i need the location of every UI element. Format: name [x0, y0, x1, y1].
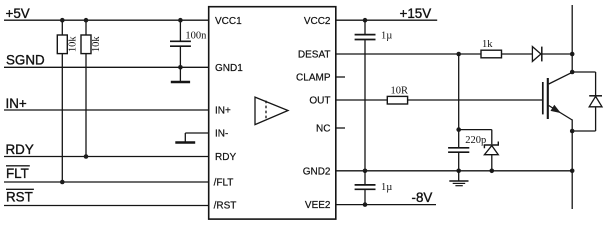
wire C1 bottom to SGND: [179, 47, 181, 68]
svg-text:IN+: IN+: [6, 96, 27, 111]
resistor R1 10k: [57, 35, 78, 54]
wire zener branch: [459, 130, 492, 145]
wire CLAMP stub: [336, 76, 345, 78]
wire OUT rail: [336, 99, 388, 101]
svg-text:/FLT: /FLT: [214, 178, 234, 189]
wire DESAT rail: [336, 53, 481, 55]
svg-text:GND2: GND2: [303, 166, 331, 177]
wire emitter rail: [571, 131, 573, 209]
svg-text:OUT: OUT: [309, 96, 330, 107]
wire VEE2 rail: [336, 204, 436, 206]
ground tie SGND: [171, 67, 190, 82]
svg-text:RDY: RDY: [215, 152, 236, 163]
junction R1 +5V: [60, 18, 65, 23]
svg-text:1µ: 1µ: [381, 182, 392, 193]
capacitor C1 100n: [170, 30, 207, 46]
ground tie IN-: [175, 141, 195, 144]
junction R2 +5V: [84, 18, 89, 23]
junction R2 RDY: [84, 154, 89, 159]
resistor R4 10R: [387, 86, 408, 104]
svg-text:IN+: IN+: [215, 106, 231, 117]
junction C2 +15V: [363, 18, 368, 23]
svg-text:10k: 10k: [91, 36, 102, 53]
node FLT label: [6, 166, 30, 181]
junction collector: [570, 70, 575, 75]
wire SGND rail: [4, 66, 209, 68]
op-amp U1 buffer triangle: [255, 97, 288, 125]
junction DESAT: [456, 52, 461, 57]
junction C4 GND2: [363, 169, 368, 174]
diode D2 freewheel: [589, 72, 602, 131]
wire diode D2 top: [572, 71, 595, 73]
ground earth symbol: [449, 171, 468, 186]
svg-text:10k: 10k: [67, 36, 78, 53]
junction zener GND2: [490, 169, 495, 174]
svg-text:+15V: +15V: [400, 6, 432, 21]
wire C2 bottom to GND2: [364, 40, 366, 171]
svg-text:+5V: +5V: [6, 6, 30, 21]
wire +5V rail: [4, 19, 209, 21]
junction C1 +5V: [178, 18, 183, 23]
wire C3 bottom to GND2: [458, 153, 460, 171]
capacitor C4 1u: [355, 171, 393, 193]
capacitor C2 1u: [355, 20, 393, 41]
junction D1 collector rail: [570, 52, 575, 57]
svg-text:SGND: SGND: [6, 52, 45, 67]
wire +15V rail: [336, 19, 437, 21]
svg-text:220p: 220p: [465, 135, 486, 146]
junction DESAT vertical zener branch: [456, 127, 461, 132]
junction C3 GND2: [456, 169, 461, 174]
junction R1 FLT: [60, 180, 65, 185]
svg-text:IN-: IN-: [215, 129, 228, 140]
svg-text:VCC2: VCC2: [304, 16, 331, 27]
wire RDY rail: [4, 156, 209, 158]
wire IN- tie: [185, 133, 208, 142]
svg-text:-8V: -8V: [412, 190, 433, 205]
svg-text:RDY: RDY: [6, 142, 34, 157]
svg-text:CLAMP: CLAMP: [296, 73, 331, 84]
wire DESAT vertical to C3: [458, 54, 460, 147]
junction C4 VEE2: [363, 202, 368, 207]
wire R2 bottom to RDY: [85, 54, 87, 157]
diode Z1 zener: [484, 142, 498, 155]
svg-text:NC: NC: [316, 124, 330, 135]
junction C1 SGND: [178, 65, 183, 70]
wire R2 top: [85, 20, 87, 35]
node RST label: [6, 189, 34, 204]
svg-text:10R: 10R: [391, 86, 409, 97]
wire R3 to D1: [502, 53, 533, 55]
wire IN+ rail: [4, 109, 209, 111]
wire GND2 rail: [336, 170, 572, 172]
svg-text:DESAT: DESAT: [298, 49, 331, 60]
wire C1 top: [179, 20, 181, 41]
svg-text:100n: 100n: [185, 30, 207, 41]
capacitor C3 220p: [448, 135, 486, 152]
wire /RST rail: [4, 205, 209, 207]
transistor Q1 IGBT: [543, 72, 572, 131]
op-amp U1 gate driver box: [209, 7, 336, 219]
wire diode D2 bottom: [572, 130, 595, 132]
resistor R2 10k: [81, 35, 102, 54]
wire D1 to collector rail: [542, 53, 572, 55]
diode D1: [532, 47, 541, 62]
wire zener to GND2: [491, 155, 493, 171]
wire NC stub: [336, 127, 345, 129]
svg-text:FLT: FLT: [6, 166, 29, 181]
svg-text:/RST: /RST: [214, 201, 237, 212]
wire R1 bottom to FLT: [61, 54, 63, 182]
resistor R3 1k: [481, 39, 502, 58]
svg-text:VEE2: VEE2: [305, 200, 331, 211]
svg-text:1µ: 1µ: [381, 30, 392, 41]
wire R1 top: [61, 20, 63, 35]
wire collector rail top: [571, 5, 573, 72]
wire R4 to gate: [408, 99, 543, 101]
svg-text:1k: 1k: [482, 39, 493, 50]
junction emitter GND2: [570, 169, 575, 174]
wire C4 bottom to VEE2: [364, 190, 366, 205]
svg-text:GND1: GND1: [215, 63, 243, 74]
svg-text:RST: RST: [6, 190, 33, 205]
svg-text:VCC1: VCC1: [215, 16, 242, 27]
wire /FLT rail: [4, 181, 209, 183]
junction emitter: [570, 129, 575, 134]
